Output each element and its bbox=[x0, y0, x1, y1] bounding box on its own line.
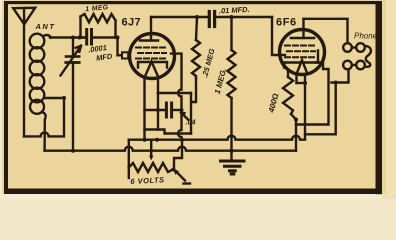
resistor R4 400 ohm bbox=[283, 70, 296, 120]
node junction .25MEG top bbox=[195, 15, 199, 19]
grid side terminal box of 6J7 bbox=[122, 52, 128, 58]
antenna bbox=[13, 8, 35, 24]
heater wire W2 with hops bbox=[129, 136, 305, 140]
svg-text:Phone: Phone bbox=[354, 32, 378, 41]
wire screen to phone bottom bbox=[332, 69, 349, 82]
ground bus with hops bbox=[45, 147, 296, 151]
6J7 heater and cathode wiring bbox=[143, 78, 145, 140]
node junction 1MEG top bbox=[230, 15, 234, 19]
battery tap arrow bbox=[176, 172, 185, 181]
svg-text:.01 MFD.: .01 MFD. bbox=[219, 5, 250, 16]
plate bar and lead bbox=[302, 19, 304, 38]
tube V2 6F6 bbox=[280, 19, 325, 75]
heater wire W1 bbox=[145, 130, 192, 134]
6F6 heater legs bbox=[295, 75, 297, 84]
node cathode resistor bottom junction bbox=[294, 118, 298, 122]
node bus junction under tuning cap bbox=[71, 149, 75, 153]
antenna lead wire bbox=[23, 24, 25, 136]
coil tap wire bbox=[45, 97, 64, 99]
wire plate rail to phone bbox=[304, 19, 348, 43]
wire phone return down bbox=[305, 83, 336, 135]
ground symbol bbox=[221, 161, 245, 174]
wire antenna to coil tap with hop over coil lead bbox=[24, 98, 64, 136]
svg-text:6F6: 6F6 bbox=[276, 16, 297, 28]
border frame bbox=[4, 1, 382, 194]
node junctions on grid wire bbox=[71, 36, 75, 40]
capacitor C2 grid .0001 MFD bbox=[81, 30, 118, 45]
resistor R1 1 MEG grid leak bbox=[81, 14, 116, 38]
wire cathode of 6F6 down bbox=[296, 63, 329, 125]
heater triangle bbox=[297, 60, 308, 74]
wire tuned circuit top bbox=[50, 36, 87, 38]
rheostat wiper arrow bbox=[149, 140, 153, 161]
label .0001 MFD bbox=[88, 43, 114, 63]
coil L1 bbox=[30, 34, 51, 114]
svg-text:6 VOLTS: 6 VOLTS bbox=[130, 175, 165, 186]
wire 400 ohm bottom to ground bus bbox=[295, 120, 297, 151]
grid dashes bbox=[285, 46, 315, 58]
node tap junction bbox=[62, 96, 66, 100]
svg-text:ANT: ANT bbox=[35, 22, 56, 31]
grid dashes bbox=[136, 48, 166, 59]
resistor R3 1 MEG vertical bbox=[228, 17, 236, 161]
cathode bracket bbox=[284, 51, 318, 68]
variable capacitor C1 .0001 tuning bbox=[61, 38, 82, 151]
heater triangle bbox=[145, 62, 159, 78]
plate bracket bbox=[138, 62, 167, 68]
wire grid lead to 6F6 bbox=[272, 17, 285, 55]
rheostat feed left bbox=[128, 140, 130, 178]
rheostat 6 volts bbox=[129, 163, 174, 172]
capacitor C4 .04 bbox=[145, 103, 182, 117]
svg-text:6J7: 6J7 bbox=[122, 17, 142, 29]
label .04 with leader bbox=[181, 113, 188, 120]
rheostat right step bbox=[174, 140, 182, 169]
resistor R2 .25 MEG bbox=[191, 17, 200, 134]
wire grid lead into 6J7 bbox=[118, 38, 122, 56]
coil bottom lead bbox=[42, 112, 46, 151]
6J7 screen exit wire bbox=[171, 54, 182, 140]
top cap lead bbox=[150, 17, 152, 41]
tube V1 6J7 bbox=[130, 17, 175, 79]
capacitor C3 .01 MFD coupling bbox=[209, 12, 272, 27]
svg-text:.04: .04 bbox=[186, 118, 196, 127]
wire plate rail y17 bbox=[151, 16, 209, 18]
phone jack tip terminals bbox=[343, 43, 371, 69]
